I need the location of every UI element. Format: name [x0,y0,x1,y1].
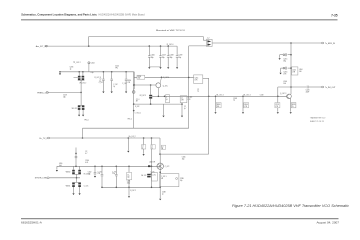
svg-text:B+_TX_2: B+_TX_2 [40,138,48,140]
svg-text:RL_O/C 2: RL_O/C 2 [244,94,251,96]
svg-text:18p: 18p [162,57,165,59]
svg-text:4.7: 4.7 [85,153,87,155]
svg-text:LTR: LTR [98,173,101,175]
svg-text:L204: L204 [283,81,287,83]
svg-text:180: 180 [217,106,220,108]
svg-text:C_O/C L: C_O/C L [161,176,167,178]
svg-text:L204: L204 [299,69,303,71]
svg-text:C207: C207 [162,55,166,57]
svg-text:L2_: L2_ [181,98,184,100]
svg-text:Q_O/C 3: Q_O/C 3 [280,93,286,95]
svg-text:4R: 4R [161,178,163,180]
svg-text:4R: 4R [136,101,138,103]
svg-text:L205: L205 [292,69,296,71]
svg-text:Q_O/C: Q_O/C [163,85,169,87]
svg-text:C200: C200 [85,160,89,162]
svg-text:18p: 18p [151,57,154,59]
svg-text:100p: 100p [127,182,130,184]
svg-text:1p: 1p [197,91,199,93]
svg-text:C220: C220 [306,90,310,92]
svg-text:C206: C206 [151,55,155,57]
svg-text:1p: 1p [100,80,102,82]
svg-text:100: 100 [283,83,286,85]
svg-text:LTR: LTR [244,106,247,108]
svg-text:C206: C206 [182,156,186,158]
svg-text:1uH: 1uH [59,165,62,167]
svg-text:1p: 1p [150,173,152,175]
svg-text:C23B: C23B [180,178,184,180]
svg-text:R208: R208 [217,104,221,106]
svg-text:C202: C202 [88,171,92,173]
svg-text:18p: 18p [283,60,286,62]
svg-text:C204: C204 [115,65,119,67]
svg-text:7-35: 7-35 [331,14,338,18]
svg-text:L200 LTR: L200 LTR [149,162,155,164]
svg-text:15: 15 [292,106,294,108]
svg-text:Schematics, Component Location: Schematics, Component Location Diagrams,… [21,13,97,17]
svg-text:August 04, 2007: August 04, 2007 [316,221,339,225]
svg-text:C_: C_ [166,97,168,99]
svg-text:1p: 1p [233,100,235,102]
svg-text:6816525H01-A: 6816525H01-A [21,221,43,225]
svg-text:R204: R204 [128,80,132,82]
svg-text:VR_O/C: VR_O/C [72,108,79,110]
svg-text:TPo: TPo [115,67,118,69]
svg-text:1.5p: 1.5p [112,173,115,175]
svg-text:C2: C2 [85,151,87,153]
svg-text:R209: R209 [244,104,248,106]
svg-text:LTR: LTR [181,100,184,102]
svg-text:C216: C216 [283,71,287,73]
svg-text:Figure 7-21 HUD4022A/HUD4025B: Figure 7-21 HUD4022A/HUD4025B VHF Transm… [232,204,349,208]
svg-text:C219: C219 [260,94,264,96]
svg-text:C204: C204 [127,181,131,183]
svg-text:100: 100 [299,71,302,73]
svg-text:HUD4022A/HUD4025B (VHF) Main B: HUD4022A/HUD4025B (VHF) Main Board [99,13,145,17]
svg-text:C2: C2 [151,146,153,148]
svg-text:C215: C215 [283,58,287,60]
svg-text:R2_O/C 3: R2_O/C 3 [140,95,146,97]
svg-text:SH_O/C: SH_O/C [141,175,146,177]
svg-text:J_2: J_2 [207,38,210,40]
svg-text:L200: L200 [59,163,63,165]
svg-text:C2: C2 [197,89,199,91]
svg-text:47p: 47p [180,180,183,182]
svg-text:R204: R204 [138,76,142,78]
svg-text:LTR: LTR [275,106,278,108]
svg-text:C_O/C Ln: C_O/C Ln [135,113,141,115]
svg-text:TP2_0: TP2_0 [84,119,89,121]
svg-text:0.5p: 0.5p [91,72,94,74]
svg-text:C218: C218 [275,104,279,106]
svg-text:330: 330 [138,78,141,80]
svg-text:L_O/C: L_O/C [152,174,156,176]
svg-text:Tx_MOD_IN: Tx_MOD_IN [325,43,336,45]
svg-text:R_O/C: R_O/C [135,106,139,108]
svg-text:VR201: VR201 [66,186,71,188]
svg-text:47pF: 47pF [306,92,310,94]
svg-text:1p: 1p [113,86,115,88]
svg-text:33p: 33p [88,173,91,175]
svg-text:18p: 18p [63,97,66,99]
svg-text:C2: C2 [162,146,164,148]
svg-text:0.01: 0.01 [85,162,88,164]
svg-text:C214: C214 [195,77,199,79]
svg-text:C2_4: C2_4 [136,99,140,101]
svg-text:SHEET 25 OF 25: SHEET 25 OF 25 [310,121,324,123]
svg-text:Mounted at VHF TX VCO: Mounted at VHF TX VCO [156,29,186,32]
svg-text:RL_O/C 2: RL_O/C 2 [217,94,224,96]
svg-text:C2_: C2_ [127,175,130,177]
svg-text:C_O/C: C_O/C [150,172,154,174]
svg-text:18p: 18p [179,57,182,59]
svg-text:R220: R220 [292,104,296,106]
svg-text:R_O/C 4: R_O/C 4 [163,77,169,79]
svg-text:C208: C208 [170,55,174,57]
svg-text:VR_O/C 2: VR_O/C 2 [79,83,86,85]
svg-text:C_O/C: C_O/C [98,171,102,173]
svg-text:C_O/C: C_O/C [113,84,117,86]
svg-text:LTR: LTR [128,82,131,84]
svg-text:C204: C204 [91,63,95,65]
svg-text:C2: C2 [100,79,102,81]
svg-text:C2_: C2_ [184,106,187,108]
svg-text:1p: 1p [184,108,186,110]
svg-text:C208: C208 [233,98,237,100]
svg-text:B+_U5_2: B+_U5_2 [129,136,136,138]
svg-text:TP2_1: TP2_1 [128,119,133,121]
svg-text:18p: 18p [182,158,185,160]
svg-text:10p: 10p [127,177,130,179]
svg-text:C23B: C23B [162,191,166,193]
svg-text:C229: C229 [63,95,67,97]
svg-text:18p: 18p [170,57,173,59]
svg-text:C_O/C: C_O/C [112,171,116,173]
svg-text:C2: C2 [142,146,144,148]
svg-text:Tx_INJ_OUT: Tx_INJ_OUT [325,87,336,89]
svg-text:SYNTH_CTRL: SYNTH_CTRL [35,178,47,180]
svg-text:R_O/C 2: R_O/C 2 [130,190,136,192]
svg-text:C209: C209 [179,55,183,57]
svg-text:1p: 1p [70,68,72,70]
svg-text:TP_O/C 2: TP_O/C 2 [73,62,81,64]
svg-text:VR200: VR200 [66,172,71,174]
svg-text:C203: C203 [70,67,74,69]
svg-text:TRANSMITTER VCO: TRANSMITTER VCO [310,117,326,120]
svg-text:1p: 1p [162,193,164,195]
